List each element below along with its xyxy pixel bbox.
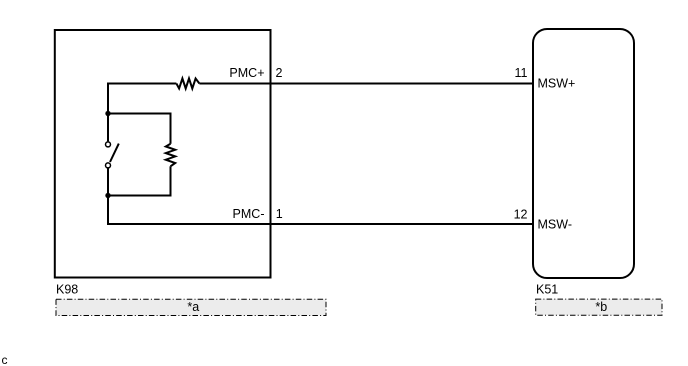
note box *a: [56, 299, 326, 315]
wire PMC+ horizontal (resistor to K51 pin 11): [199, 83, 533, 85]
switch S (contact circles and blade): [106, 142, 119, 168]
svg-text:MSW+: MSW+: [538, 77, 576, 91]
svg-text:2: 2: [276, 66, 283, 80]
wire parallel-branch bottom rail: [108, 195, 171, 197]
svg-text:MSW-: MSW-: [538, 218, 573, 232]
note box *b: [536, 299, 662, 315]
wire PMC+ horizontal (left segment to resistor): [107, 83, 176, 85]
svg-text:*b: *b: [595, 300, 607, 314]
wire right branch lower: [170, 166, 172, 196]
resistor R (series in PMC+ line): [176, 79, 199, 89]
wire parallel-branch top rail: [108, 113, 171, 115]
connector K98 (outer box): [55, 30, 271, 278]
wire below switch to bottom junction: [107, 168, 109, 225]
svg-text:11: 11: [515, 66, 528, 80]
svg-text:PMC+: PMC+: [229, 66, 264, 80]
junction node (top): [105, 111, 110, 116]
svg-text:1: 1: [276, 207, 283, 221]
svg-text:*a: *a: [187, 300, 199, 314]
wire left vertical drop from PMC+ corner: [107, 83, 109, 142]
wire right branch upper: [170, 113, 172, 144]
svg-text:PMC-: PMC-: [233, 207, 265, 221]
svg-text:K98: K98: [56, 282, 78, 296]
wire PMC- horizontal to K51 pin 12: [107, 223, 533, 225]
svg-text:c: c: [2, 353, 8, 366]
connector K51 (rounded box): [533, 29, 634, 278]
resistor R2 (parallel with switch): [166, 144, 175, 167]
svg-text:12: 12: [514, 207, 528, 221]
svg-text:K51: K51: [536, 282, 558, 296]
junction node (bottom): [105, 193, 110, 198]
